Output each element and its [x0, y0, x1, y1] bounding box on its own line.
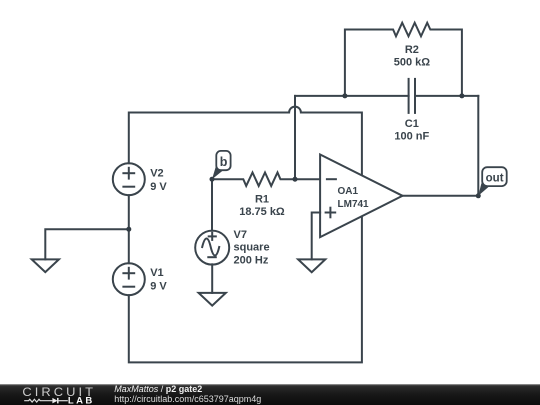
svg-text:V1: V1 — [150, 267, 163, 279]
svg-text:C1: C1 — [405, 118, 419, 130]
svg-text:V2: V2 — [150, 168, 163, 180]
voltage source V2 — [113, 163, 145, 195]
wire V2 to V1 — [128, 195, 130, 263]
footer bar — [0, 384, 540, 405]
svg-text:http://circuitlab.com/c653797a: http://circuitlab.com/c653797aqpm4g — [114, 394, 261, 404]
wire V- rail: op-amp V- pin, bottom rail, left column bottom — [129, 216, 362, 362]
svg-text:500 kΩ: 500 kΩ — [394, 56, 431, 68]
ground (V7) — [199, 293, 226, 306]
svg-text:9 V: 9 V — [150, 181, 167, 193]
ground (op-amp non-inverting) — [298, 259, 325, 272]
svg-text:LM741: LM741 — [338, 199, 370, 210]
node junction inverting input — [293, 177, 298, 182]
node junction R2 right / C1 — [459, 93, 464, 98]
wire from C1/R2 node down to op-amp inverting input — [294, 96, 296, 179]
wire feedback right leg — [477, 96, 479, 196]
svg-text:R2: R2 — [405, 44, 419, 56]
footer title text — [114, 384, 261, 404]
svg-text:LAB: LAB — [68, 396, 95, 405]
wire mid node to left ground — [45, 229, 129, 259]
wire non-inverting input to ground — [312, 213, 320, 260]
node junction battery midpoint — [126, 227, 131, 232]
svg-text:18.75 kΩ: 18.75 kΩ — [239, 206, 285, 218]
wire V+ rail: left column top, top rail with hop over wire, op-amp V+ pin — [129, 107, 362, 176]
svg-text:OA1: OA1 — [338, 186, 359, 197]
node flag b — [212, 151, 231, 179]
junction dots — [126, 93, 481, 231]
node junction b — [210, 177, 215, 182]
wire op-amp output to out node — [403, 195, 479, 197]
resistor R1 — [212, 172, 320, 186]
svg-text:out: out — [486, 173, 504, 185]
svg-text:200 Hz: 200 Hz — [234, 254, 269, 266]
ground (battery midpoint) — [32, 259, 59, 272]
voltage source V1 — [113, 263, 145, 295]
svg-text:V7: V7 — [234, 229, 247, 241]
svg-text:square: square — [234, 242, 270, 254]
wire V7 to ground — [211, 264, 213, 293]
node junction R2 left / C1 — [342, 93, 347, 98]
node flag out — [478, 167, 506, 196]
svg-text:R1: R1 — [255, 194, 269, 206]
wire node b down to V7 — [211, 179, 213, 231]
node junction out — [476, 193, 481, 198]
resistor R2 — [345, 23, 462, 96]
voltage source V7 — [195, 231, 229, 265]
capacitor C1 — [295, 79, 478, 113]
op-amp OA1 triangle — [320, 155, 402, 238]
svg-text:9 V: 9 V — [150, 281, 167, 293]
svg-text:MaxMattos / p2 gate2: MaxMattos / p2 gate2 — [114, 384, 202, 394]
footer CircuitLab logo — [22, 386, 96, 405]
svg-text:100 nF: 100 nF — [394, 130, 429, 142]
svg-text:b: b — [220, 155, 228, 169]
